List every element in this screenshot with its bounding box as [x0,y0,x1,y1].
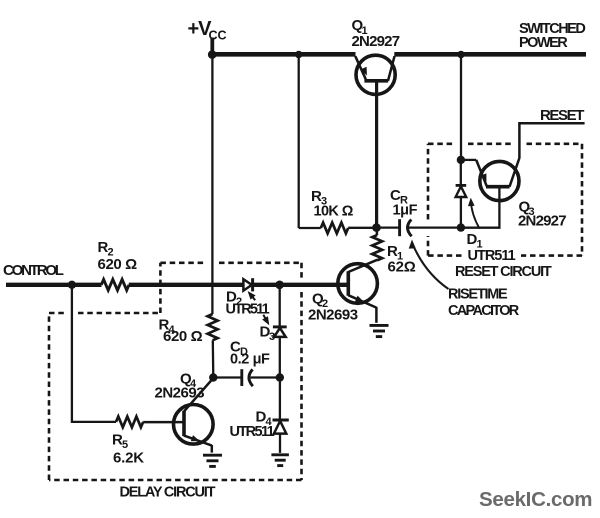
wire Q1 base lead down to node [375,81,378,228]
wire R4 to node [212,340,215,377]
svg-text:620 Ω: 620 Ω [163,328,203,345]
wire control line left [6,283,102,287]
node Vcc junction [208,50,217,59]
svg-text:2N2693: 2N2693 [155,385,205,402]
wire R5 to Q4 base [143,421,184,424]
capacitor CR left plate [398,219,401,236]
wire +Vcc power rail left segment [210,52,356,57]
svg-text:2N2693: 2N2693 [308,307,358,324]
svg-text:2N2927: 2N2927 [352,33,400,50]
transistor Q1 2N2927 [355,55,395,94]
wire Q2 emitter down [375,307,378,323]
wire control tap down to D3 [279,285,281,327]
wire Q3 base lead [461,187,500,228]
node rail junction at reset drop [457,51,464,58]
diode D1 UTR511 [456,185,467,197]
svg-text:UTR511: UTR511 [230,424,275,440]
wire Q3 collector to RESET [519,123,584,158]
wire node to CD left plate [213,376,241,378]
resistor R2 [101,279,129,290]
wire switched power rail right segment [394,52,586,57]
wire Vcc line down to R4 [211,55,213,315]
svg-text:DELAY CIRCUIT: DELAY CIRCUIT [120,485,216,501]
svg-text:1μF: 1μF [393,203,418,219]
ground Q2 emitter [370,325,389,336]
diode D2 UTR511 [243,278,252,291]
resistor R5 [116,417,143,428]
wire rail drop to R3 [298,55,300,229]
wire node to CR left plate [377,226,400,228]
transistor Q3 2N2927 [461,158,520,201]
wire CD to D3 branch [251,376,280,378]
wire node to R1 [376,228,379,235]
node control junction [68,281,76,289]
node D1 bottom junction [457,223,465,231]
wire D4 to ground [279,434,281,453]
wire control drop to R5 [72,285,116,422]
pointer arrow to D1 [468,198,480,229]
svg-text:CAPACITOR: CAPACITOR [448,303,520,319]
dashed boundary delay circuit box [49,263,302,480]
svg-text:POWER: POWER [519,35,568,51]
wire rail drop to reset circuit [460,55,462,161]
node main node at R1 top [372,223,381,232]
transistor Q4 2N2693 [174,378,214,445]
resistor R4 [208,314,218,340]
resistor R3 [321,223,348,234]
node CD right junction [276,373,284,381]
diode D3 UTR511 [273,327,287,337]
pointer arrow to D3 [262,315,269,325]
node D3 tap junction [275,281,284,290]
pointer arrow to risetime capacitor CR [409,240,449,290]
svg-text:CONTROL: CONTROL [3,262,64,279]
wire R3 right lead [348,227,376,229]
capacitor CD left plate [240,369,243,386]
power terminal +Vcc stub [210,38,214,56]
svg-text:UTR511: UTR511 [226,302,270,318]
svg-text:10K Ω: 10K Ω [314,204,354,220]
wire CR to reset circuit [409,226,461,228]
diode D4 UTR511 [273,420,289,434]
node Q4 collector junction [209,373,217,381]
ground D4 [271,455,289,466]
svg-text:62Ω: 62Ω [388,259,416,276]
wire control line right of D2 [253,283,349,287]
ground Q4 emitter [203,455,222,466]
wire D1 bottom lead [460,197,462,228]
svg-text:SeekIC.com: SeekIC.com [479,488,592,511]
svg-text:620 Ω: 620 Ω [98,256,138,273]
wire D3 to CD node [279,337,281,378]
wire R3 left lead [299,227,321,229]
resistor R1 [372,235,382,260]
node rail junction at R3 drop [295,51,302,58]
svg-text:6.2K: 6.2K [113,450,144,467]
wire Q4 emitter down [211,445,214,453]
pointer arrow to D2 [248,291,256,300]
dashed boundary reset circuit box [428,144,582,256]
svg-text:0.2 μF: 0.2 μF [230,352,270,368]
svg-text:RESET: RESET [540,107,584,124]
node D1 top junction [457,156,465,164]
svg-text:RESET CIRCUIT: RESET CIRCUIT [455,264,552,280]
svg-text:UTR511: UTR511 [468,248,516,264]
transistor Q2 2N2693 [338,260,378,308]
capacitor CR right plate [408,220,412,237]
wire CD node down to D4 [279,378,281,420]
wire control line R2 to D2 [129,283,243,287]
wire D1 top lead [460,160,462,185]
capacitor CD right plate [249,369,253,386]
svg-text:2N2927: 2N2927 [518,213,566,230]
svg-text:RISETIME: RISETIME [448,287,508,303]
